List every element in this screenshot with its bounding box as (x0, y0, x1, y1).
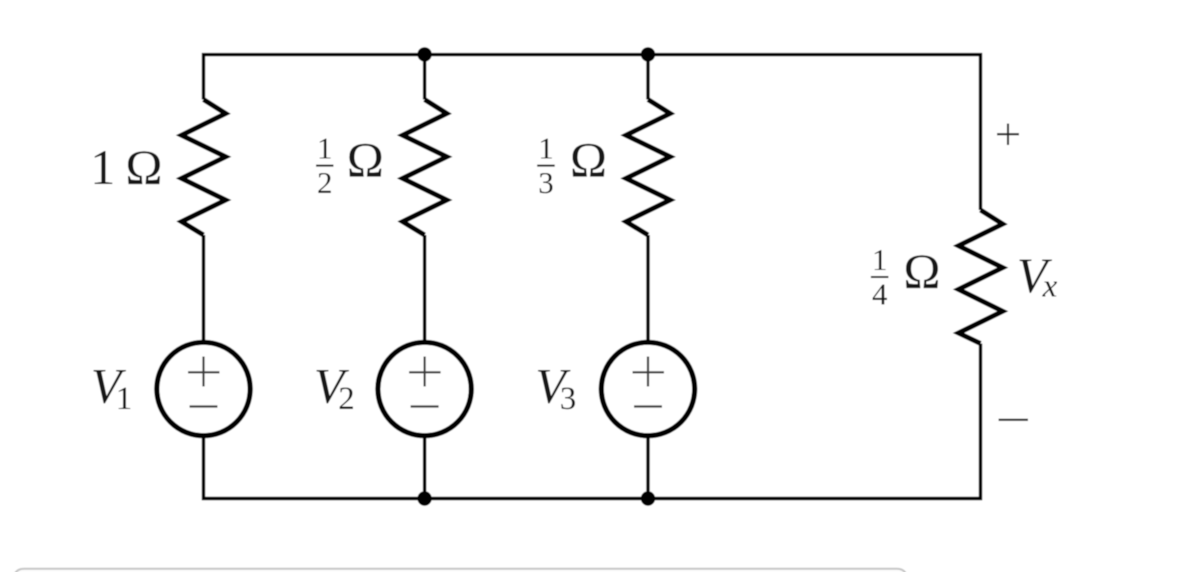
label Vx (1017, 247, 1058, 305)
card below (rounded top border) (14, 569, 906, 572)
svg-text:3: 3 (560, 381, 577, 417)
voltage source V2 circle (378, 342, 471, 435)
junction node top-2 (417, 47, 431, 61)
wire top bus (204, 55, 981, 210)
label V1 (91, 357, 133, 417)
label V3 (535, 357, 576, 417)
V2 minus sign (411, 405, 439, 407)
label 1/4 ohm (871, 242, 941, 311)
V3 minus sign (634, 405, 662, 407)
svg-text:x: x (1042, 269, 1058, 305)
svg-text:2: 2 (317, 165, 333, 200)
minus polarity mark (right branch) (999, 419, 1028, 421)
V1 minus sign (190, 405, 218, 407)
label V2 (314, 357, 355, 417)
V1 plus sign (188, 357, 220, 387)
svg-text:4: 4 (872, 276, 888, 311)
resistor R1 (1 ohm) zigzag (182, 100, 226, 236)
wire branch3 bottom (646, 437, 649, 499)
svg-text:1: 1 (90, 139, 115, 195)
svg-text:1: 1 (116, 381, 133, 417)
wire branch2 bottom (423, 437, 426, 499)
label 1/2 ohm (316, 131, 384, 200)
wire bottom bus (204, 344, 981, 499)
svg-text:Ω: Ω (125, 139, 162, 195)
label 1 ohm (90, 139, 162, 195)
svg-text:2: 2 (338, 381, 355, 417)
resistor R2 (1/2 ohm) zigzag (403, 100, 447, 236)
voltage source V1 circle (157, 342, 250, 435)
junction node top-3 (641, 47, 655, 61)
junction node bottom-3 (641, 491, 655, 505)
plus polarity mark (right branch) (997, 124, 1019, 146)
junction node bottom-2 (417, 491, 431, 505)
wire branch3 middle (646, 235, 649, 340)
wire branch3 top (646, 55, 649, 100)
resistor R4 (1/4 ohm, Vx) zigzag (959, 210, 1003, 344)
label 1/3 ohm (537, 131, 607, 200)
resistor R3 (1/3 ohm) zigzag (626, 100, 670, 236)
svg-text:Ω: Ω (570, 132, 607, 188)
voltage source V3 circle (601, 342, 694, 435)
svg-text:1: 1 (538, 131, 554, 166)
V2 plus sign (409, 357, 441, 387)
svg-text:3: 3 (538, 165, 554, 200)
wire branch2 top (423, 55, 426, 100)
svg-text:1: 1 (872, 242, 888, 277)
wire branch1 middle (202, 235, 205, 340)
svg-text:Ω: Ω (903, 243, 940, 299)
wire branch2 middle (423, 235, 426, 340)
V3 plus sign (633, 357, 665, 387)
svg-text:1: 1 (317, 131, 333, 166)
svg-text:Ω: Ω (347, 132, 384, 188)
